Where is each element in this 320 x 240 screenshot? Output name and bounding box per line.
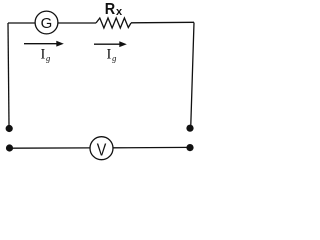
- svg-text:I: I: [107, 47, 112, 63]
- svg-text:I: I: [41, 47, 46, 63]
- svg-text:g: g: [46, 53, 50, 63]
- svg-text:V: V: [97, 141, 107, 160]
- svg-text:g: g: [112, 53, 116, 63]
- svg-text:x: x: [116, 6, 123, 18]
- svg-text:G: G: [41, 15, 53, 32]
- svg-text:R: R: [105, 1, 116, 19]
